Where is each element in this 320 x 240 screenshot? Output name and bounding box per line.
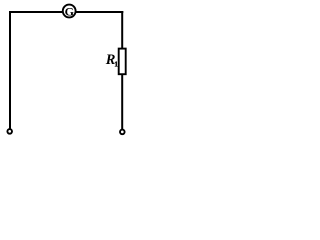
terminal bottom-right <box>120 130 125 135</box>
wire right vertical upper <box>121 11 123 49</box>
resistor R1 body <box>119 49 126 75</box>
svg-text:1: 1 <box>114 60 118 68</box>
wire left vertical <box>9 11 11 129</box>
terminal bottom-left <box>7 129 12 134</box>
svg-text:G: G <box>65 5 74 19</box>
wire right vertical lower <box>121 75 123 130</box>
galvanometer G <box>63 5 76 19</box>
wire top-right horizontal segment <box>76 11 123 13</box>
wire top-left horizontal segment <box>9 11 63 13</box>
